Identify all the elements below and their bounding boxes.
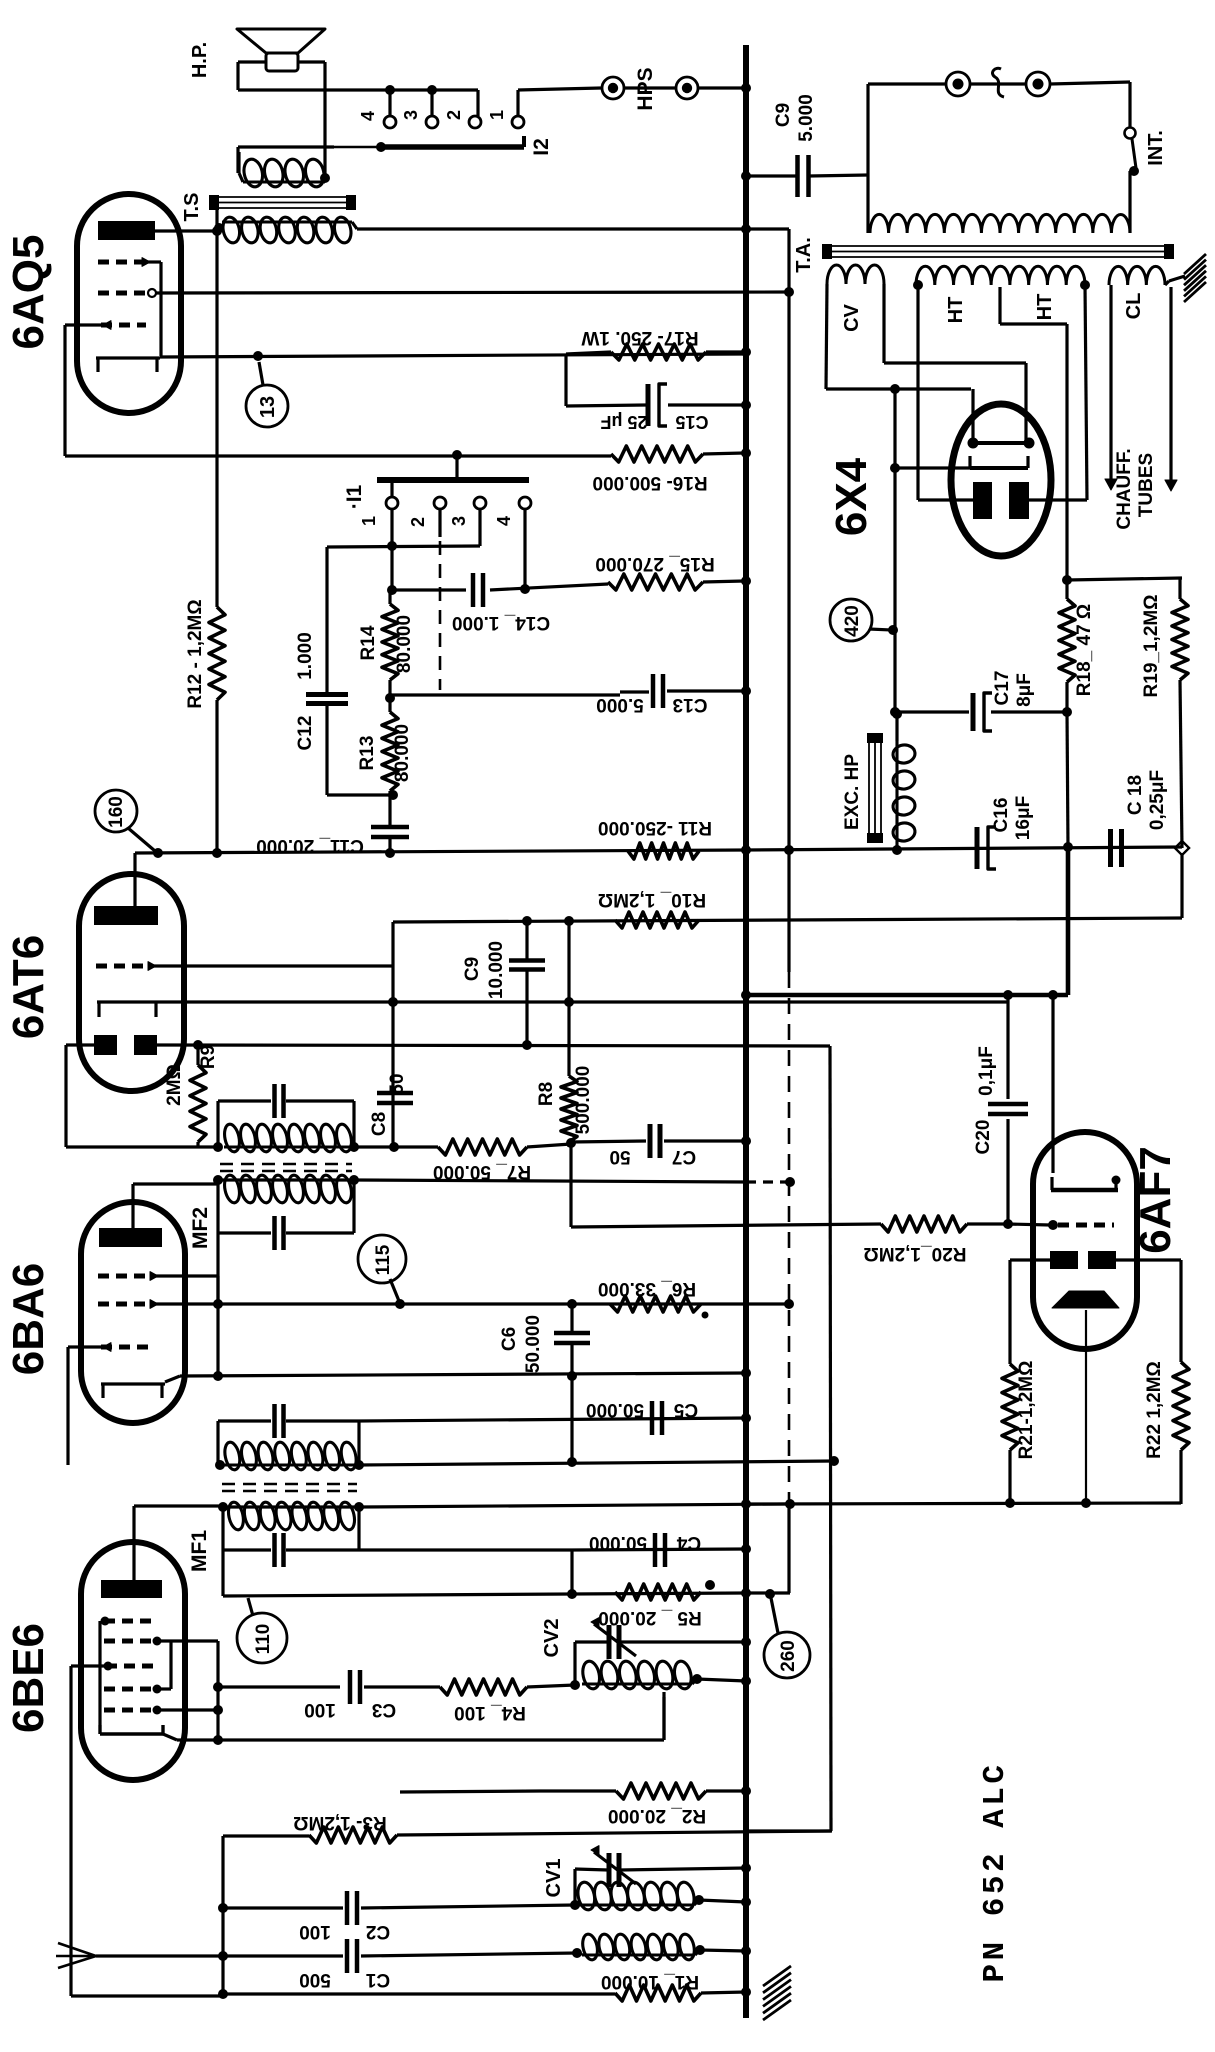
svg-text:MF2: MF2 [189, 1207, 212, 1249]
junction C4 tie [567, 1589, 577, 1599]
wire between HPS jacks [624, 86, 676, 89]
wire AGC ext [746, 1591, 790, 1594]
svg-text:PN 652 ALC: PN 652 ALC [978, 1761, 1013, 1982]
svg-text:6BA6: 6BA6 [4, 1263, 53, 1376]
terminal 3 of I2 [401, 110, 438, 128]
junction R16 bus [741, 448, 751, 458]
label C9 [773, 94, 817, 142]
coil antenna [577, 1933, 700, 1961]
junction pin3 top [427, 85, 437, 95]
svg-text:8μF: 8μF [1014, 673, 1035, 707]
label R1 [601, 1971, 699, 1992]
svg-text:2: 2 [408, 517, 428, 527]
fluorescent screen 6AF7 [1052, 1291, 1119, 1308]
capacitor C8 [377, 1093, 413, 1103]
wire cathode return 6AF7 [746, 1503, 1181, 1504]
resistor R4 100 [440, 1679, 527, 1695]
junction return R21 [1005, 1498, 1015, 1508]
wire heater stub [746, 993, 1068, 998]
junction CV2 bus [741, 1637, 751, 1647]
coil CV1 [576, 1881, 699, 1912]
label 6AT6 [4, 935, 53, 1039]
junction pin4 wire [520, 584, 530, 594]
label INT [1145, 130, 1167, 166]
label R18 [1074, 604, 1095, 696]
svg-text:C6: C6 [499, 1327, 520, 1351]
svg-text:R20_1,2MΩ: R20_1,2MΩ [864, 1243, 967, 1264]
wire cathode 6BA6 [180, 1373, 746, 1376]
svg-text:3: 3 [449, 516, 469, 526]
label R3 [293, 1812, 386, 1833]
wire pin3 down [478, 509, 481, 546]
svg-text:CV: CV [841, 303, 863, 331]
wire HPS to bus [698, 86, 746, 89]
tube 6BA6 [81, 1202, 185, 1423]
wire speaker right lead [298, 62, 325, 176]
diode plate 1 6AT6 [94, 1035, 117, 1055]
resistor R18 47 [1059, 580, 1075, 712]
svg-text:R6_ 33.000: R6_ 33.000 [598, 1278, 696, 1299]
ground TA [1169, 254, 1206, 302]
svg-text:3: 3 [401, 110, 421, 120]
capacitor C20 [988, 1104, 1028, 1223]
junction cathode tick [253, 351, 263, 361]
plate of 6AT6 [94, 906, 158, 925]
wire screen lead [1085, 1310, 1087, 1504]
label CV2 [541, 1619, 563, 1658]
coil MF2 lower [222, 1174, 354, 1204]
capacitor C14 [473, 573, 483, 607]
core MF1 dashes [222, 1484, 357, 1491]
label R16 [592, 472, 707, 493]
cathode 6AT6 [97, 1002, 158, 1017]
resistor R10 1.2M [615, 912, 699, 928]
coil CL winding [1109, 266, 1165, 285]
plate of 6BE6 [101, 1506, 223, 1598]
wire diode1 left lead [66, 1045, 218, 1147]
junction cathode tie [213, 1735, 223, 1745]
wire CV1 top [575, 1868, 746, 1904]
junction ant coil bus [741, 1946, 751, 1956]
junction C9 bus [741, 171, 751, 181]
junction heater node1 [1003, 990, 1013, 1000]
svg-text:2MΩ: 2MΩ [164, 1064, 185, 1106]
wire R3 wire [223, 1834, 309, 1837]
wire CV1 coil to bus [699, 1900, 746, 1902]
wire HT center tap [1000, 287, 1067, 580]
capacitor C2 [223, 1891, 575, 1925]
svg-text:R15_ 270.000: R15_ 270.000 [595, 553, 714, 574]
wire AGC R5 wire [223, 1593, 746, 1596]
tube 6BE6 [81, 1542, 185, 1780]
label R11 [598, 817, 712, 838]
coil HT winding [916, 266, 1085, 285]
junction cathode MF2tap [213, 1371, 223, 1381]
svg-text:C5: C5 [673, 1399, 698, 1420]
wire B+ rail dashed [788, 972, 791, 1504]
svg-text:6AF7: 6AF7 [1131, 1146, 1180, 1254]
label R9 [164, 1045, 219, 1106]
resistor R1 10k [223, 1985, 746, 2001]
label 6AQ5 [4, 235, 53, 350]
plate 2 6X4 [1009, 482, 1029, 519]
coil TA primary [870, 214, 1130, 233]
junction C15 bus [741, 400, 751, 410]
cathode 6AQ5 [96, 358, 160, 372]
label MF2 [189, 1207, 212, 1249]
label PN 652 ALC [978, 1761, 1013, 1982]
resistor R17 250 1W [566, 344, 744, 360]
capacitor C4 [572, 1533, 746, 1567]
junction return bus [741, 1499, 751, 1509]
junction heater node2 [1048, 990, 1058, 1000]
resistor R16 500k [65, 446, 744, 462]
wire secondary left end [237, 152, 240, 173]
junction HPS bus [741, 83, 751, 93]
resistor R7 50k [438, 1139, 527, 1155]
wire osc grid column [221, 1836, 224, 1997]
wire between plugs [970, 82, 1026, 85]
capacitor C1 [347, 1939, 357, 1973]
junction primary left [214, 223, 224, 233]
label C4 [589, 1532, 701, 1553]
junction C2 left [218, 1903, 228, 1913]
wire pin1 to HPS jack [518, 88, 601, 116]
junction CV heater tap [890, 384, 900, 394]
label R22 [1144, 1361, 1165, 1459]
svg-text:80.000: 80.000 [394, 615, 415, 673]
svg-text:C 18: C 18 [1125, 775, 1146, 815]
junction C4 bus [741, 1544, 751, 1554]
resistor R14 80k [382, 590, 398, 698]
label CV1 [543, 1859, 565, 1898]
coil MF2 upper [222, 1123, 354, 1153]
junction pin1 mid [387, 541, 397, 551]
svg-text:C13: C13 [673, 694, 708, 715]
coil CV winding [827, 265, 884, 284]
label R20 [864, 1243, 967, 1264]
label C9b [462, 941, 507, 999]
label EXC HP [842, 754, 863, 830]
filament bracket 6X4 [968, 389, 1035, 449]
svg-text:500: 500 [299, 1969, 331, 1990]
resistor R19 1.2M [1172, 578, 1188, 848]
grid g1 row 6AQ5 [98, 258, 161, 356]
junction MF2 lower corners [213, 1175, 359, 1185]
svg-text:C14_ 1.000: C14_ 1.000 [452, 612, 550, 633]
svg-text:C9: C9 [462, 957, 483, 981]
resistor R22 1.2M [1173, 1362, 1189, 1504]
capacitor C5 [652, 1401, 662, 1435]
trimmer CV2 [591, 1618, 636, 1659]
svg-text:R22 1,2MΩ: R22 1,2MΩ [1144, 1361, 1165, 1459]
junction choke bottom [892, 845, 902, 855]
junction C7 bus [741, 1136, 751, 1146]
wire I1 to C14 [392, 588, 466, 591]
resistor R12 1.2M [209, 607, 225, 853]
junction C11 bottom [385, 848, 395, 858]
label C2 [299, 1921, 390, 1942]
wire B+ rail lower [787, 1504, 790, 1593]
wire tie down to C12 [325, 547, 328, 692]
resistor R2 20k [540, 1783, 706, 1799]
junction heater bus [741, 990, 751, 1000]
wire MF2 B+ wire [354, 1180, 790, 1182]
junction C6 top [567, 1299, 577, 1309]
junction B+ stub [741, 224, 751, 234]
capacitor MF1 upper [275, 1404, 284, 1438]
svg-text:0,25μF: 0,25μF [1147, 770, 1168, 830]
core MF2 dashes [220, 1164, 352, 1171]
junction cathode bus [741, 1368, 751, 1378]
junction C17 left [890, 707, 900, 717]
svg-text:5.000: 5.000 [796, 94, 817, 142]
capacitor C9 5000 [746, 155, 868, 197]
wire ant coil to bus [700, 1950, 746, 1951]
label C5 [586, 1399, 698, 1420]
wire R7 wire [354, 1145, 438, 1148]
plug AC left [946, 72, 970, 96]
junction R8 diode wire [564, 997, 574, 1007]
junction R5 blob [705, 1580, 715, 1590]
svg-text:5.000: 5.000 [596, 694, 644, 715]
capacitor C15 25uF [566, 384, 744, 426]
junction heater hook [890, 463, 900, 473]
core TA [822, 244, 1174, 259]
wire R4 to CV2 [527, 1685, 575, 1687]
callout 115 [358, 1235, 406, 1301]
junction MF2 upper right [349, 1142, 359, 1152]
svg-text:R5 _ 20.000: R5 _ 20.000 [598, 1607, 702, 1628]
transformer MF1 lower box [223, 1507, 359, 1550]
svg-text:500.000: 500.000 [573, 1066, 594, 1135]
wire MF1 coil right AVC [359, 1461, 834, 1465]
junction AVC tie [567, 1457, 577, 1467]
label C1 [299, 1969, 390, 1990]
junction C17 right [1062, 707, 1072, 717]
junction secondary right [320, 173, 330, 183]
wire C3 wire [218, 1685, 340, 1688]
svg-text:TUBES: TUBES [1136, 453, 1157, 517]
junction CV2 left [570, 1680, 580, 1690]
terminal 1 of I1 [359, 480, 398, 526]
svg-text:13: 13 [257, 396, 279, 418]
cathode 6BA6 [101, 1376, 180, 1398]
junction HT left top [913, 280, 923, 290]
target anode 6AF7 [1051, 1176, 1121, 1191]
junction C8 bottom R7 [389, 1142, 399, 1152]
svg-text:160: 160 [106, 796, 127, 828]
wire screen grid to B+ [156, 292, 789, 293]
wire AVC wire 922 [393, 918, 1182, 922]
junction C1 left [218, 1951, 228, 1961]
deflector 1 6AF7 [1050, 1251, 1078, 1269]
svg-text:6X4: 6X4 [827, 457, 876, 536]
label 6BA6 [4, 1263, 53, 1376]
tube 6X4 [951, 404, 1051, 556]
wire deflector2 lead [1116, 1260, 1181, 1362]
resistor R8 500k [561, 921, 577, 1147]
label C11 [256, 835, 364, 856]
label HPS [634, 67, 657, 110]
svg-text:R1_ 10.000: R1_ 10.000 [601, 1971, 699, 1992]
svg-text:EXC. HP: EXC. HP [842, 754, 863, 830]
junction C13 bus [741, 686, 751, 696]
svg-text:R19_1,2MΩ: R19_1,2MΩ [1141, 595, 1162, 698]
svg-text:R10_ 1,2MΩ: R10_ 1,2MΩ [598, 889, 706, 910]
speaker H.P. [237, 29, 325, 71]
wire g3 lead left [65, 325, 101, 456]
svg-text:4: 4 [358, 111, 378, 121]
wire I1 stem [455, 457, 458, 481]
tube 6AT6 [79, 874, 184, 1091]
resistor R20 1.2M [881, 1216, 1008, 1232]
label I1 [343, 484, 366, 509]
transformer MF1 upper box [218, 1421, 359, 1465]
switch bar I2 [334, 136, 524, 147]
label C8 [369, 1073, 408, 1136]
capacitor C17 8uF [973, 693, 992, 731]
junction pin1 bottom [387, 585, 397, 595]
switch bar I1 [377, 477, 529, 483]
svg-text:R18_ 47 Ω: R18_ 47 Ω [1074, 604, 1095, 696]
junction R7 right [566, 1138, 576, 1148]
svg-text:C7: C7 [672, 1146, 696, 1167]
jack HPS tip [602, 77, 624, 99]
svg-text:6BE6: 6BE6 [4, 1623, 53, 1733]
label C13 [596, 694, 707, 715]
wire C1 to ant coil [361, 1948, 582, 1958]
junction R6 blob [702, 1312, 709, 1319]
wire CV left lead [826, 284, 971, 389]
wire C9 up to plug [868, 84, 946, 175]
junction R13 R14 [385, 693, 395, 703]
coil EXC HP [892, 712, 916, 850]
wire R18 R19 tie [1067, 578, 1182, 580]
coil MF1 lower [226, 1501, 357, 1531]
grid g3 row 6BA6 [68, 1343, 152, 1465]
resistor R11 250k [628, 843, 699, 859]
resistor R5 20k [615, 1584, 701, 1600]
label I2 [530, 138, 553, 156]
wire HT right lead [1029, 285, 1087, 500]
label R5 [598, 1607, 702, 1628]
coil MF1 upper [223, 1441, 359, 1471]
wire primary right [1128, 171, 1131, 233]
svg-text:R3- 1,2MΩ: R3- 1,2MΩ [293, 1812, 386, 1833]
junction C9b top [522, 916, 532, 926]
capacitor C18 [1111, 829, 1122, 867]
junction C6 cathode wire [567, 1371, 577, 1381]
grid g1 row 6BA6 [98, 1272, 218, 1304]
wire C line AVC rail [746, 1046, 831, 1831]
wire MF1 plate feed [359, 1504, 790, 1507]
wire R19 bottom to R10 [1180, 853, 1183, 918]
label C18 [1125, 770, 1168, 830]
junction 420 tick [888, 625, 898, 635]
wire pin4 down [523, 509, 526, 589]
label R2 [608, 1805, 706, 1826]
wire osc tap [662, 1692, 665, 1740]
label C7 [609, 1146, 696, 1167]
svg-text:R16- 500.000: R16- 500.000 [592, 472, 707, 493]
wire B+ top stub [746, 227, 789, 230]
junction MF1 upper left [215, 1460, 225, 1470]
junction R1 bus [741, 1987, 751, 1997]
junction MF1 lower right [354, 1502, 364, 1512]
svg-text:C9: C9 [773, 103, 794, 127]
wire R14 junction right [390, 693, 620, 696]
wire pin2 stub [438, 509, 441, 537]
svg-text:100: 100 [304, 1699, 336, 1720]
wire primary left [866, 175, 869, 233]
label MF1 [188, 1530, 211, 1572]
svg-text:R21-1,2MΩ: R21-1,2MΩ [1016, 1361, 1037, 1460]
svg-text:50: 50 [609, 1146, 630, 1167]
wire plug to INT [1050, 82, 1130, 127]
wire C12 bottom [327, 706, 393, 795]
wire C14 to R15 [490, 584, 608, 590]
label R15 [595, 553, 714, 574]
svg-text:HT: HT [1034, 294, 1056, 321]
svg-text:110: 110 [253, 1624, 274, 1655]
junction grid B line [784, 1299, 794, 1309]
junction C9b bottom [522, 1040, 532, 1050]
junction R20 C20 [1003, 1219, 1013, 1229]
wire CV right lead [884, 284, 1026, 443]
label C15 [600, 412, 708, 432]
svg-text:HT: HT [945, 297, 967, 324]
label 6X4 [827, 457, 876, 536]
capacitor C11 [371, 820, 409, 853]
wire cathode osc tap [177, 1697, 664, 1740]
junction R2 bus [741, 1786, 751, 1796]
label CHAUFF TUBES [1114, 448, 1157, 529]
wire R2 to bus [706, 1789, 746, 1792]
wire R20 into 6AF7 [1008, 1224, 1050, 1225]
label C16 [991, 796, 1034, 840]
label R4 [454, 1702, 526, 1723]
label C17 [992, 671, 1035, 707]
svg-text:T.A.: T.A. [793, 237, 815, 273]
wire R2 left [400, 1791, 540, 1792]
grid row 6AF7 [1048, 1220, 1114, 1230]
capacitor C7 [571, 1124, 744, 1158]
label CL [1123, 293, 1145, 320]
junction AVC C line [829, 1456, 839, 1466]
svg-text:0,1μF: 0,1μF [976, 1046, 997, 1096]
svg-text:·I1: ·I1 [343, 484, 366, 509]
svg-text:115: 115 [373, 1244, 394, 1275]
svg-text:C20: C20 [973, 1120, 994, 1155]
terminal 2 of I1 [408, 497, 446, 527]
label R6 [598, 1278, 696, 1299]
svg-text:C8: C8 [369, 1112, 390, 1136]
junction B+ choke tap [784, 845, 794, 855]
junction R8 top [564, 916, 574, 926]
wire MF2 lower tap [216, 1233, 219, 1376]
wire cathode to R17 [160, 354, 744, 357]
wire speaker bus to pins [238, 90, 478, 116]
svg-text:C12: C12 [295, 716, 316, 751]
wire HT left lead [918, 285, 973, 500]
junction R11 bus [741, 845, 751, 855]
svg-text:C3: C3 [372, 1699, 396, 1720]
switch INT [1125, 128, 1140, 177]
grid g3 row 6AQ5 [101, 321, 146, 330]
svg-text:4: 4 [494, 516, 514, 526]
terminal 3 of I1 [449, 497, 486, 526]
